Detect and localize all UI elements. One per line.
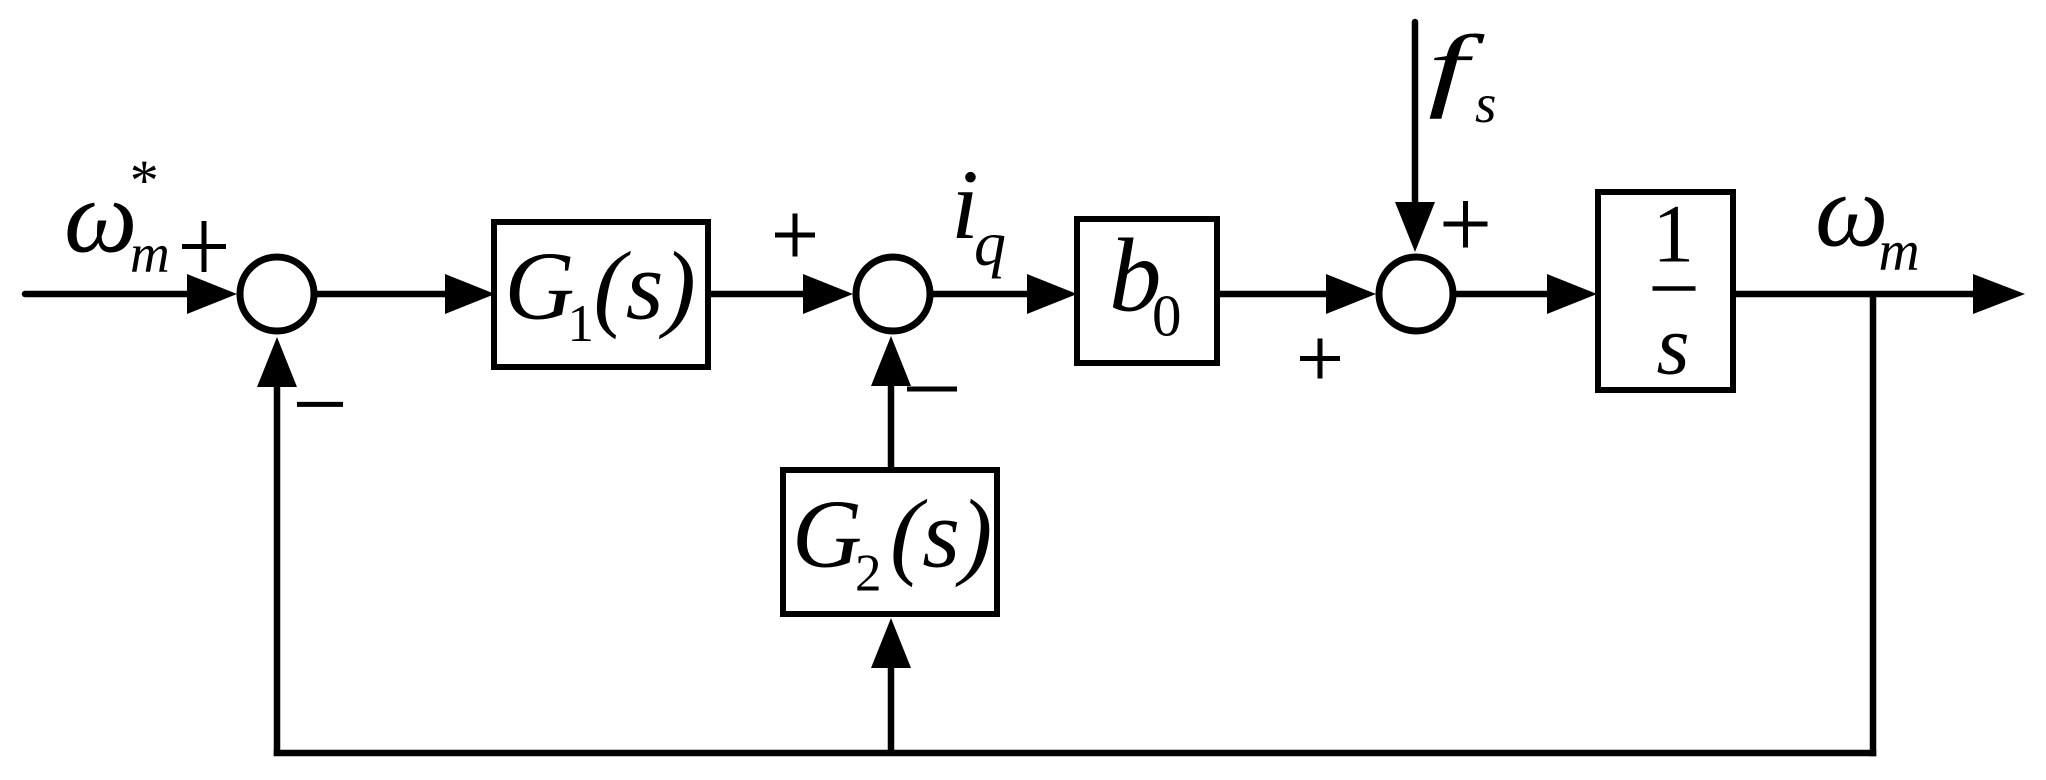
svg-text:(s): (s) [594,233,696,340]
svg-text:(s): (s) [890,481,992,588]
svg-text:s: s [1657,299,1690,393]
svg-text:1: 1 [1653,188,1695,280]
svg-text:0: 0 [1152,283,1182,349]
svg-text:*: * [127,148,156,213]
svg-text:2: 2 [855,545,882,603]
svg-text:G: G [792,481,862,588]
svg-text:s: s [1475,73,1496,134]
svg-text:ω: ω [1815,154,1888,269]
svg-text:m: m [1879,220,1920,283]
svg-text:q: q [974,208,1006,279]
svg-text:1: 1 [568,295,595,353]
svg-text:m: m [130,223,170,284]
svg-text:G: G [505,233,575,340]
